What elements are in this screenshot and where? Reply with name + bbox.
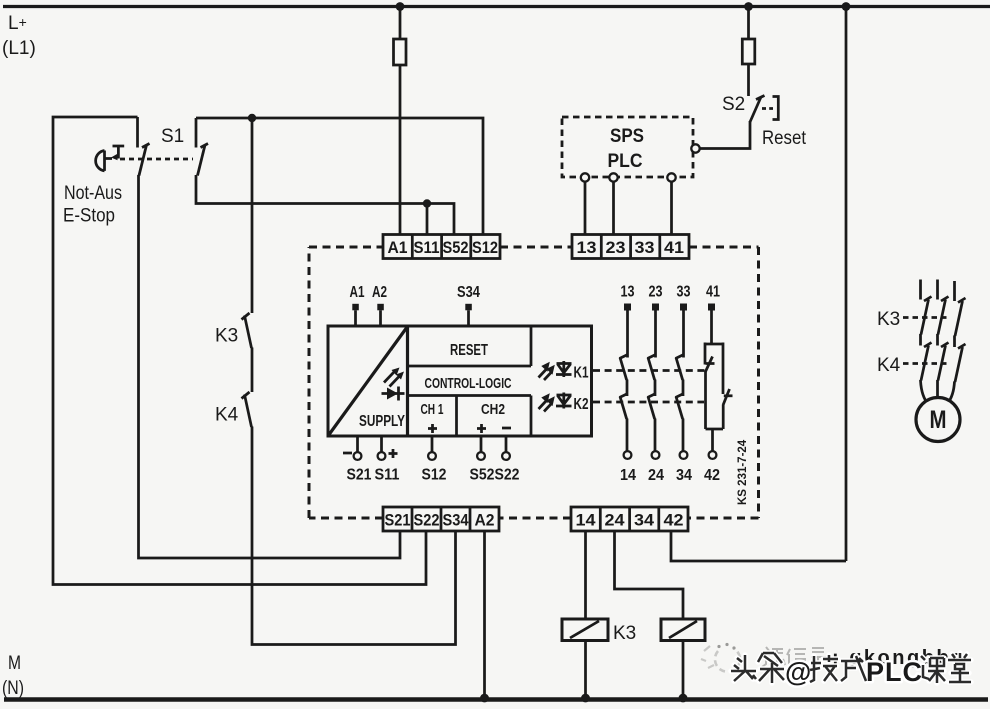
svg-text:A2: A2 bbox=[475, 511, 495, 530]
wire branch to S11 bbox=[426, 204, 429, 235]
svg-text:14: 14 bbox=[576, 511, 597, 530]
svg-text:K3: K3 bbox=[613, 623, 636, 644]
junction rail-fuse1 bbox=[396, 2, 405, 11]
svg-text:42: 42 bbox=[664, 511, 684, 530]
node L+ supply rail bbox=[3, 5, 990, 8]
svg-text:S22: S22 bbox=[414, 511, 440, 530]
junction S11 branch bbox=[423, 199, 431, 207]
wire S1 pole1 to S21 bbox=[139, 175, 401, 558]
relay unit U1 outer box bbox=[328, 326, 592, 436]
RESET sub-box bbox=[408, 326, 532, 366]
CH1 plus bbox=[428, 424, 437, 433]
svg-text:RESET: RESET bbox=[450, 342, 488, 359]
contact path 41-42 NC pair bbox=[704, 284, 733, 485]
svg-text:CH 1: CH 1 bbox=[421, 402, 444, 418]
motor feed wires bbox=[921, 380, 955, 405]
E-stop actuator wedge bbox=[111, 154, 118, 160]
svg-text:14: 14 bbox=[620, 467, 636, 484]
svg-text:24: 24 bbox=[648, 467, 664, 484]
wire rail to fuse F1 bbox=[399, 7, 402, 40]
svg-text:S52: S52 bbox=[443, 238, 469, 257]
switch S1 pole2 blade bbox=[198, 145, 206, 176]
switch S1 pole2 tick bbox=[201, 144, 209, 148]
wire top loop y118 to S12 bbox=[196, 118, 483, 235]
SPS PLC dashed box bbox=[562, 117, 693, 177]
watermark ghost logo bbox=[701, 646, 740, 672]
pin S34 bbox=[457, 284, 480, 326]
E-stop stem bbox=[105, 157, 112, 160]
svg-text:(N): (N) bbox=[2, 678, 24, 699]
supply section divider bbox=[406, 326, 409, 436]
svg-text:23: 23 bbox=[649, 284, 663, 301]
wire 42 terminal to right drop bbox=[671, 531, 846, 561]
contact path 33-34 bbox=[676, 284, 693, 485]
svg-text:S2: S2 bbox=[722, 94, 745, 115]
svg-text:CONTROL-LOGIC: CONTROL-LOGIC bbox=[425, 375, 512, 392]
coil K3 bbox=[562, 619, 608, 641]
wire S2 to PLC box bbox=[699, 121, 751, 149]
svg-text:K3: K3 bbox=[215, 326, 238, 347]
svg-text:S52: S52 bbox=[470, 467, 495, 484]
wire K4 chain to S34 bbox=[252, 427, 456, 645]
E-stop link dashes bbox=[120, 158, 193, 161]
terminal block 14 24 34 42 bbox=[571, 507, 688, 531]
PLC output circle 13 bbox=[581, 173, 589, 181]
watermark gray text bbox=[762, 647, 826, 667]
svg-text:S22: S22 bbox=[495, 467, 520, 484]
svg-text:24: 24 bbox=[605, 511, 626, 530]
junction rail-right-drop bbox=[842, 2, 851, 11]
K4 contactor dashes bbox=[903, 362, 950, 365]
wire S1 pole2 lower to S11/S52 bbox=[196, 175, 454, 235]
svg-text:PLC: PLC bbox=[866, 657, 923, 687]
junction K3 rail bbox=[581, 694, 590, 703]
svg-text:(L1): (L1) bbox=[2, 38, 36, 59]
contactor K4 pole2 bbox=[938, 343, 949, 381]
svg-text:PLC: PLC bbox=[608, 151, 643, 172]
svg-text:S34: S34 bbox=[457, 284, 480, 301]
svg-text:41: 41 bbox=[664, 238, 684, 257]
switch S2 reset pushbutton blade bbox=[750, 97, 761, 122]
K1 actuation dashes bbox=[593, 369, 708, 372]
S2 actuator link dashes bbox=[762, 107, 773, 110]
svg-text:S21: S21 bbox=[385, 511, 411, 530]
svg-text:S11: S11 bbox=[375, 467, 400, 484]
wire right drop from rail to 42 feed bbox=[845, 7, 848, 562]
fuse F1 bbox=[394, 39, 407, 65]
S2 actuator bracket bbox=[773, 97, 779, 120]
contactor K3 pole1 bbox=[921, 297, 932, 335]
svg-text:K4: K4 bbox=[215, 405, 239, 426]
switch S1 pole1 fixed wire bbox=[136, 117, 139, 148]
contact path 23-24 bbox=[648, 284, 665, 485]
svg-text:K3: K3 bbox=[877, 309, 900, 330]
wire A2 to bottom rail bbox=[483, 531, 486, 698]
svg-text:A1: A1 bbox=[350, 284, 365, 301]
wire coil K4 to rail bbox=[682, 641, 685, 699]
three phase stubs bbox=[921, 280, 955, 302]
wire PLC to terminal 23 bbox=[612, 182, 615, 235]
svg-text:34: 34 bbox=[634, 511, 655, 530]
svg-text:A2: A2 bbox=[372, 284, 387, 301]
pin S11 bottom bbox=[375, 436, 400, 484]
watermark main text bbox=[731, 653, 971, 687]
wire rail to fuse F2 bbox=[747, 7, 750, 40]
terminal block S21 S22 S34 A2 bbox=[383, 507, 499, 531]
contactor K3 pole2 bbox=[938, 297, 949, 335]
supply LED arrows bbox=[384, 368, 404, 387]
svg-text:34: 34 bbox=[676, 467, 692, 484]
svg-text:CH2: CH2 bbox=[481, 402, 505, 418]
svg-text:S12: S12 bbox=[472, 238, 498, 257]
svg-text:SUPPLY: SUPPLY bbox=[359, 413, 405, 430]
PLC side circle to S2 bbox=[691, 144, 699, 152]
switch S1 pole1 blade bbox=[139, 145, 147, 176]
pin S21 bottom bbox=[343, 436, 372, 484]
coil K4 bbox=[661, 619, 705, 641]
terminal block A1 S11 S52 S12 bbox=[383, 235, 500, 259]
svg-text:S21: S21 bbox=[347, 467, 372, 484]
wire PLC to terminal 41 bbox=[670, 182, 673, 235]
svg-text:13: 13 bbox=[577, 238, 597, 257]
wire 14 to coil K3 bbox=[584, 531, 587, 619]
contact K4 tick bbox=[242, 392, 250, 399]
PLC output circle 41 bbox=[667, 173, 675, 181]
contactor K3 pole3 bbox=[955, 298, 966, 336]
svg-text:23: 23 bbox=[606, 238, 626, 257]
svg-text:M: M bbox=[8, 653, 21, 674]
pin S52 bottom bbox=[470, 436, 495, 484]
svg-text:S12: S12 bbox=[422, 467, 447, 484]
K2 actuation dashes bbox=[593, 401, 704, 404]
supply section diagonal bbox=[328, 327, 408, 437]
interpole wires bbox=[921, 334, 955, 347]
svg-text:SPS: SPS bbox=[610, 126, 644, 147]
contactor K4 pole1 bbox=[921, 343, 932, 381]
svg-text:Not-Aus: Not-Aus bbox=[64, 183, 122, 204]
safety relay dashed boundary bbox=[309, 247, 759, 518]
svg-text:@: @ bbox=[785, 657, 811, 687]
motor M bbox=[916, 398, 960, 442]
svg-text:K1: K1 bbox=[574, 365, 589, 382]
svg-text:41: 41 bbox=[706, 284, 720, 301]
fuse F2 bbox=[742, 39, 755, 64]
wire K3 to K4 bbox=[251, 348, 254, 393]
supply diode symbol bbox=[382, 387, 405, 401]
svg-text:42: 42 bbox=[704, 467, 720, 484]
pin S22 bottom bbox=[495, 436, 520, 484]
junction A2 rail bbox=[480, 694, 489, 703]
contact path 13-14 bbox=[620, 284, 637, 485]
svg-text:KS 231-7-24: KS 231-7-24 bbox=[737, 439, 749, 505]
svg-text:M: M bbox=[930, 406, 947, 434]
svg-text:S11: S11 bbox=[414, 238, 440, 257]
left loop box wire (S22 path) bbox=[53, 117, 426, 585]
svg-text:K2: K2 bbox=[574, 396, 589, 413]
junction rail-fuse2 bbox=[744, 2, 753, 11]
wire coil K3 to rail bbox=[584, 641, 587, 699]
switch S1 pole1 tick bbox=[142, 144, 150, 148]
relay K2 indicator bbox=[539, 393, 589, 414]
svg-text:33: 33 bbox=[635, 238, 655, 257]
switch S2 tick bbox=[756, 96, 765, 100]
svg-text:S1: S1 bbox=[161, 126, 184, 147]
CH2 minus bbox=[502, 427, 511, 430]
wire fuse F1 to terminal A1 bbox=[399, 65, 402, 235]
K3 contactor dashes bbox=[903, 316, 950, 319]
PLC output circle 23 bbox=[609, 173, 617, 181]
junction K3K4 chain on y118 bbox=[248, 114, 256, 122]
terminal block 13 23 33 41 bbox=[572, 235, 689, 259]
junction K4 rail bbox=[679, 694, 688, 703]
pin S12 bottom bbox=[422, 436, 447, 484]
svg-text:13: 13 bbox=[621, 284, 635, 301]
relay K1 indicator bbox=[539, 361, 589, 382]
wire 24 to coil K4 bbox=[615, 531, 684, 619]
CH1 CH2 sub-boxes bbox=[408, 396, 532, 437]
svg-text:33: 33 bbox=[677, 284, 691, 301]
contactor K4 pole3 bbox=[955, 344, 966, 382]
wire chain to K3 contact bbox=[251, 118, 254, 313]
svg-text:E-Stop: E-Stop bbox=[63, 206, 115, 227]
svg-text:A1: A1 bbox=[388, 238, 408, 257]
wire fuse F2 to S2 bbox=[747, 64, 750, 96]
node M(N) bottom rail bbox=[4, 697, 988, 701]
svg-text:S34: S34 bbox=[443, 511, 469, 530]
svg-text:K4: K4 bbox=[877, 355, 901, 376]
pin A1 bbox=[350, 284, 365, 326]
E-stop actuator T bbox=[113, 146, 125, 159]
contact K3 tick bbox=[242, 313, 250, 320]
contact K4 blade bbox=[245, 395, 252, 428]
svg-text:Reset: Reset bbox=[762, 128, 807, 149]
switch S1 pole2 fixed wire bbox=[195, 118, 198, 148]
contact K3 blade bbox=[245, 316, 252, 349]
CH2 plus bbox=[477, 424, 486, 433]
E-stop mushroom head bbox=[96, 151, 105, 171]
pin A2 bbox=[372, 284, 387, 326]
wire PLC to terminal 13 bbox=[584, 182, 587, 235]
